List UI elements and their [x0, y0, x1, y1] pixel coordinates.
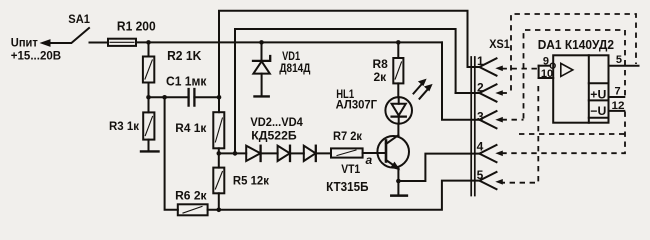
dashed arrowheads — [495, 66, 503, 185]
pin 1 — [477, 54, 497, 76]
node junction R1/R2 — [146, 40, 151, 45]
svg-text:VD2...VD4: VD2...VD4 — [250, 115, 303, 129]
wire dashed DA1 enclosure bottom — [519, 133, 625, 135]
switch SA1 — [68, 12, 90, 42]
svg-text:АЛ307Г: АЛ307Г — [336, 97, 378, 111]
diode VD4 — [304, 146, 316, 161]
node R8 junction — [396, 40, 401, 45]
node C1 right junction (probe input) — [217, 95, 222, 100]
op-amp triangle — [561, 63, 573, 76]
wire arrowhead pin3 — [495, 117, 503, 123]
resistor R8 — [373, 42, 404, 97]
resistor R5 — [213, 153, 269, 209]
wire dashed branch to pin5 — [502, 86, 539, 183]
pin 9 input — [539, 55, 556, 68]
svg-text:а: а — [366, 153, 373, 167]
pin 5 output — [609, 54, 639, 66]
pin 2 — [477, 80, 497, 101]
wire collector to LED — [397, 124, 399, 136]
node VD1 junction — [259, 40, 264, 45]
diode VD3 — [278, 146, 290, 161]
svg-text:XS1: XS1 — [489, 37, 510, 51]
wire dashed pin1 to DA1 inputs — [502, 68, 539, 70]
wire arrowhead pin1 — [495, 66, 503, 72]
svg-text:С1 1мк: С1 1мк — [166, 73, 207, 88]
wire — [316, 152, 331, 154]
transistor VT1 — [326, 135, 409, 194]
svg-text:R1 200: R1 200 — [117, 19, 156, 33]
pin 12 -U — [590, 100, 624, 118]
wire dashed DA1 pin12 to pin4 — [502, 112, 626, 154]
wire arrowhead pin2 — [495, 90, 503, 96]
wire pin1 stub — [468, 66, 480, 68]
wire left drop to bottom rail — [165, 97, 178, 210]
connector XS1 body — [471, 37, 510, 196]
ground R3 common bar — [141, 150, 159, 152]
zener diode VD1 — [253, 42, 311, 96]
svg-text:5: 5 — [616, 54, 622, 66]
resistor R4 — [175, 97, 224, 153]
svg-text:R6 2к: R6 2к — [175, 189, 207, 203]
svg-text:R7 2к: R7 2к — [333, 129, 363, 143]
svg-text:R5 12к: R5 12к — [233, 174, 270, 188]
wire bottom common rail to pin5 — [208, 181, 480, 210]
svg-text:SA1: SA1 — [68, 12, 90, 26]
wire dashed pin3 to DA1 pin7 — [524, 30, 626, 119]
svg-text:−U: −U — [590, 104, 606, 118]
LED light arrows — [414, 79, 432, 98]
resistor R2 — [143, 42, 202, 97]
wire emitter to pin4 — [398, 154, 479, 181]
ground VD1 common bar — [255, 95, 269, 97]
wire base — [363, 152, 386, 154]
svg-text:R4 1к: R4 1к — [175, 121, 207, 135]
pin 5 — [477, 168, 497, 189]
wire top rail 2 (pin2 net) — [235, 29, 456, 153]
node junction to bottom rail — [162, 95, 167, 100]
svg-text:2к: 2к — [374, 70, 388, 84]
wire SA1 to R1 — [90, 42, 109, 44]
svg-text:VT1: VT1 — [341, 162, 360, 176]
wire pin2 stub — [456, 92, 480, 94]
resistor R7 — [331, 129, 363, 158]
resistor R6 — [175, 189, 208, 216]
wire — [290, 152, 304, 154]
wire input tie — [538, 66, 540, 78]
node R5 bottom junction — [217, 208, 222, 213]
svg-text:DA1 К140УД2: DA1 К140УД2 — [538, 37, 614, 52]
capacitor C1 — [149, 73, 220, 105]
node base line left junction — [217, 151, 222, 156]
svg-text:R8: R8 — [373, 57, 389, 71]
wire dashed pin2 to DA1 out5 — [511, 14, 636, 91]
wire arrowhead pin5 — [495, 179, 503, 185]
svg-text:R2 1K: R2 1K — [167, 48, 202, 63]
wire top rail 1 (pin1 net) — [219, 11, 468, 98]
node diode chain junction — [233, 151, 238, 156]
resistor R3 — [109, 97, 154, 151]
svg-text:+15...20В: +15...20В — [11, 48, 62, 62]
svg-text:7: 7 — [615, 85, 621, 97]
svg-text:КД522Б: КД522Б — [251, 128, 297, 142]
node C1 left junction — [146, 95, 151, 100]
svg-text:R3 1к: R3 1к — [109, 119, 140, 133]
resistor R1 — [108, 19, 156, 46]
wire main +rail — [136, 41, 442, 43]
pin 10 input — [539, 68, 554, 80]
diode VD2 — [246, 115, 303, 161]
wire main rail to pin3 — [442, 42, 479, 119]
pin 4 — [477, 139, 497, 162]
op-amp DA1 — [538, 37, 639, 123]
svg-text:+U: +U — [590, 87, 606, 101]
svg-text:Д814Д: Д814Д — [279, 61, 310, 75]
wire supply arrow — [41, 40, 71, 46]
dashed external connections — [502, 14, 637, 183]
wire emitter down — [397, 169, 399, 181]
node Uпит label — [11, 36, 62, 63]
pin 7 +U — [590, 85, 624, 101]
wire arrowhead pin4 — [495, 151, 503, 157]
wire dashed arrow pin2 — [502, 92, 512, 94]
wire dashed arrow pin3 — [502, 119, 524, 121]
ground emitter common — [391, 181, 407, 196]
pin 3 — [477, 110, 497, 129]
wire base line — [219, 152, 246, 154]
node emitter junction — [396, 179, 401, 184]
wire — [261, 152, 278, 154]
LED HL1 — [336, 87, 412, 124]
svg-text:КТ315Б: КТ315Б — [326, 179, 368, 194]
